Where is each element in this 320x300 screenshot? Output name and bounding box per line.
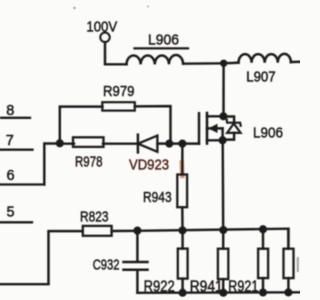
svg-text:6: 6 xyxy=(7,168,15,184)
pin 7 xyxy=(0,133,33,150)
wire R823 to bus xyxy=(112,230,138,233)
resistor R979 xyxy=(102,83,135,111)
node bottom R922 xyxy=(179,289,187,297)
speck top mid xyxy=(147,6,149,8)
MOSFET body stub with arrow xyxy=(207,125,223,133)
node bottom R941 xyxy=(219,289,227,297)
diode VD923 xyxy=(129,135,169,174)
wire rail to junction xyxy=(183,62,224,65)
inductor L906 xyxy=(127,31,189,64)
svg-text:L906: L906 xyxy=(253,125,283,142)
node bottom R9xx xyxy=(284,288,292,296)
wire node C down to R943 xyxy=(181,144,184,175)
node bus R922 xyxy=(178,226,186,234)
smudge above R943 xyxy=(180,163,185,177)
pin 8 xyxy=(1,103,30,119)
svg-text:100V: 100V xyxy=(86,18,117,35)
capacitor C932 xyxy=(93,231,148,293)
wire R979 to node B xyxy=(135,106,171,144)
speck top left xyxy=(73,7,75,9)
node bus R921 xyxy=(259,225,267,233)
MOSFET source stub xyxy=(207,139,223,141)
svg-text:L906: L906 xyxy=(148,31,179,48)
bus line xyxy=(137,229,288,249)
MOSFET drain stub xyxy=(207,115,224,117)
svg-text:R943: R943 xyxy=(143,189,172,206)
wire node A up to R979 row xyxy=(60,107,103,144)
node C xyxy=(178,140,186,148)
wire node A to R978 xyxy=(60,142,74,144)
svg-text:5: 5 xyxy=(7,205,15,221)
svg-text:R978: R978 xyxy=(75,153,103,170)
MOSFET V906 gate bar xyxy=(198,113,200,144)
node rail junction xyxy=(220,60,227,67)
bottom rail xyxy=(138,291,300,294)
resistor R943 xyxy=(143,175,187,208)
wire terminal to rail xyxy=(105,42,127,64)
pin 5 xyxy=(0,205,32,223)
svg-text:VD923: VD923 xyxy=(129,157,169,174)
svg-text:L907: L907 xyxy=(246,68,276,85)
svg-text:7: 7 xyxy=(6,133,14,149)
node bus C932 xyxy=(133,227,141,235)
wire junction to L907 xyxy=(224,61,239,64)
svg-text:C932: C932 xyxy=(93,256,120,273)
resistor R921 xyxy=(228,229,268,295)
inductor L907 xyxy=(239,54,291,85)
resistor R978 xyxy=(73,137,104,170)
node source xyxy=(219,136,227,144)
MOSFET channel bar xyxy=(206,113,209,144)
wire source down to bus xyxy=(221,140,224,230)
wire junction down to drain xyxy=(222,63,225,116)
node A xyxy=(56,139,64,147)
resistor R9xx right xyxy=(284,229,294,293)
resistor R823 xyxy=(80,208,112,235)
node bottom R921 xyxy=(259,288,267,296)
wire L907 to right edge xyxy=(291,61,300,64)
resistor R922 xyxy=(144,231,188,296)
node B xyxy=(165,140,173,148)
node drain xyxy=(219,112,227,120)
fragment right edge xyxy=(297,258,299,271)
wire diode to gate xyxy=(157,142,199,144)
node bus R941 xyxy=(219,226,227,234)
wire pin6 up to node A xyxy=(44,144,60,185)
terminal 100V xyxy=(86,18,117,42)
pin 6 xyxy=(0,168,44,184)
wire R943 to bus xyxy=(181,207,184,230)
MOSFET body-source link xyxy=(221,128,223,140)
resistor R941 xyxy=(190,230,229,296)
wire R978 to diode xyxy=(103,142,138,144)
svg-text:R823: R823 xyxy=(80,208,109,225)
svg-text:R979: R979 xyxy=(103,83,135,100)
body zener diode of V906 xyxy=(223,117,241,140)
wire left feed bottom xyxy=(0,231,83,284)
